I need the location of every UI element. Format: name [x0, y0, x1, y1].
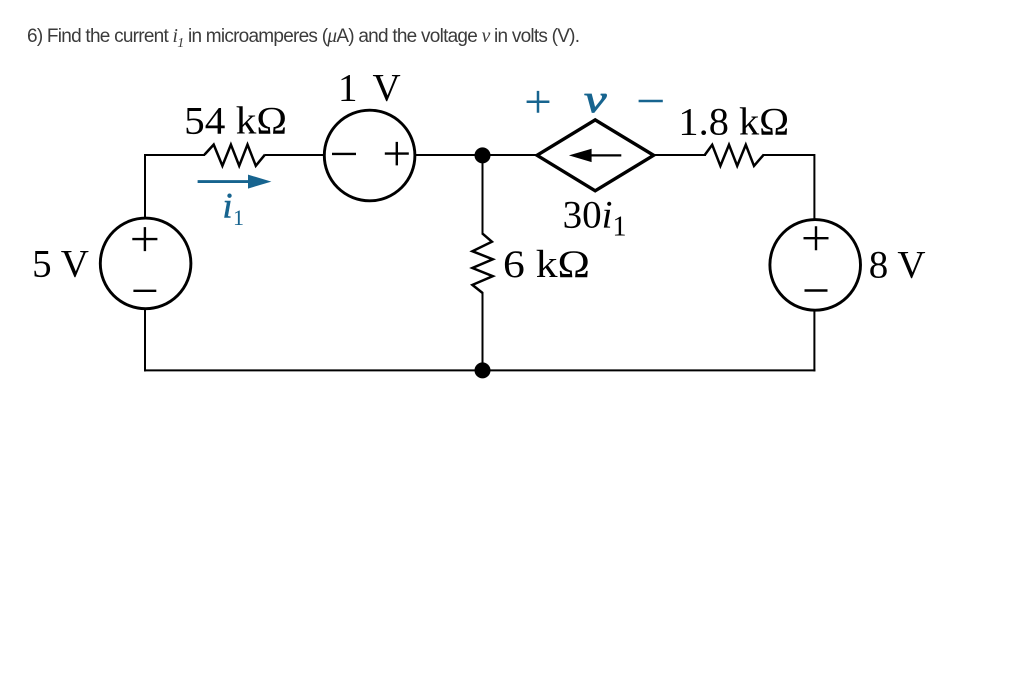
svg-text:8 V: 8 V: [869, 244, 926, 287]
resistor R1 54 kOhm: [205, 145, 266, 166]
node junction dot top: [475, 147, 491, 163]
resistor R2 1.8 kOhm: [705, 145, 764, 166]
dependent source U1 diamond 30i1: [537, 120, 654, 191]
wire top-left horizontal: [145, 154, 205, 156]
plus sign inside 5V: [132, 227, 157, 251]
wire 1.8k to right corner: [763, 154, 814, 156]
arrow inside diamond pointing left: [588, 154, 621, 156]
voltage source V3 8V circle: [770, 220, 861, 311]
wire resistor to 1V source: [265, 154, 324, 156]
node junction dot bottom: [475, 362, 491, 378]
middle vertical wire lower: [482, 292, 484, 370]
right vertical wire upper: [813, 154, 815, 220]
current arrow i1 teal: [198, 180, 252, 183]
svg-text:30i1: 30i1: [563, 194, 627, 243]
svg-text:1.8 kΩ: 1.8 kΩ: [678, 100, 789, 143]
voltage source V1 5V circle: [100, 218, 191, 309]
minus sign inside 1V: [332, 153, 356, 155]
minus sign inside 5V: [133, 290, 156, 292]
svg-text:5 V: 5 V: [32, 242, 89, 285]
svg-text:1 V: 1 V: [338, 67, 404, 110]
left vertical wire lower: [144, 308, 146, 371]
middle vertical wire upper: [482, 155, 484, 235]
wire diamond to 1.8k resistor: [654, 154, 706, 156]
svg-text:v: v: [584, 78, 607, 121]
minus sign inside 8V: [805, 289, 828, 291]
left vertical wire upper: [144, 154, 146, 219]
plus sign inside 8V: [804, 226, 829, 250]
teal minus above diamond: [639, 100, 663, 103]
wire 1V source to diamond with node: [416, 154, 537, 156]
resistor R3 6 kOhm: [472, 234, 492, 293]
svg-text:54 kΩ: 54 kΩ: [184, 100, 287, 143]
svg-text:1: 1: [233, 205, 244, 230]
bottom wire: [144, 369, 815, 371]
svg-text:i: i: [223, 186, 233, 226]
right vertical wire lower: [813, 310, 815, 372]
svg-text:6 kΩ: 6 kΩ: [503, 243, 590, 286]
voltage source V2 1V circle: [324, 110, 415, 201]
teal plus above diamond: [527, 91, 550, 113]
plus sign inside 1V: [385, 142, 409, 166]
title text: [27, 26, 579, 52]
